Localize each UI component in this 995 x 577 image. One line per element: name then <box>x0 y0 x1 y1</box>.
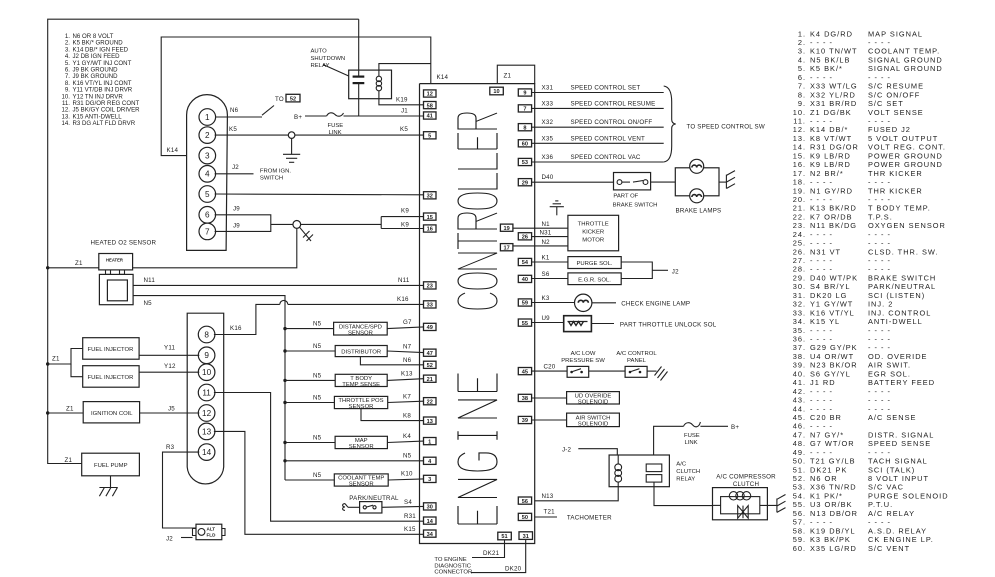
svg-text:CK ENGINE LP.: CK ENGINE LP. <box>868 535 934 544</box>
svg-text:- - - -: - - - - <box>810 239 833 248</box>
wire J2 solenoid common <box>621 262 652 279</box>
wire lamps to ground <box>719 181 726 183</box>
svg-text:1: 1 <box>428 439 431 445</box>
svg-text:13: 13 <box>427 419 433 425</box>
component distributor <box>335 346 387 357</box>
svg-text:K16: K16 <box>230 325 242 332</box>
svg-text:SPEED SENSE: SPEED SENSE <box>868 439 931 448</box>
svg-text:U3 OR/BK: U3 OR/BK <box>810 500 853 509</box>
svg-text:R31 DG/OR: R31 DG/OR <box>810 143 859 152</box>
svg-text:SHUTDOWN: SHUTDOWN <box>311 56 346 62</box>
svg-text:PRESSURE SW: PRESSURE SW <box>561 358 605 364</box>
pin 58 <box>424 102 437 109</box>
svg-text:K9 LB/RD: K9 LB/RD <box>810 160 851 169</box>
relay ac coil <box>615 455 622 487</box>
wire Z1 to heater <box>48 267 99 269</box>
component ud overide solenoid <box>567 392 620 404</box>
pin 52b <box>424 361 437 368</box>
svg-text:SWITCH: SWITCH <box>260 176 283 182</box>
svg-text:31: 31 <box>523 534 529 540</box>
wire ASD coil feed to K14 line <box>379 64 431 71</box>
svg-text:31.: 31. <box>793 291 806 300</box>
svg-text:THROTTLE: THROTTLE <box>578 222 609 228</box>
svg-text:1.: 1. <box>798 29 806 38</box>
junction N5 tap 3 <box>283 379 286 382</box>
svg-text:FROM IGN.: FROM IGN. <box>260 169 291 175</box>
svg-text:5: 5 <box>428 134 431 140</box>
wire brake switch to lamps <box>651 181 676 183</box>
svg-text:16.: 16. <box>793 160 806 169</box>
wire U9 pin55 to ptu sol <box>532 322 564 324</box>
svg-text:K1 PK/*: K1 PK/* <box>810 492 843 501</box>
svg-text:K1: K1 <box>542 255 550 262</box>
wire lamp to label <box>592 302 616 304</box>
component purge solenoid <box>568 257 621 269</box>
svg-text:K13 BK/RD: K13 BK/RD <box>810 204 857 213</box>
svg-text:7: 7 <box>523 107 526 113</box>
svg-text:T.P.S.: T.P.S. <box>868 212 893 221</box>
svg-text:E.G.R. SOL.: E.G.R. SOL. <box>578 277 611 283</box>
svg-text:38.: 38. <box>793 352 806 361</box>
svg-text:K8 VT/WT: K8 VT/WT <box>810 134 852 143</box>
wire J9 common to K9 split <box>271 223 381 225</box>
svg-text:G7: G7 <box>403 319 412 326</box>
ground fuel pump <box>99 476 117 496</box>
connector C2 body pins 8-14 <box>187 313 224 484</box>
svg-text:K13: K13 <box>401 371 413 378</box>
component ac compressor clutch <box>713 488 768 520</box>
svg-text:SPEED CONTROL ON/OFF: SPEED CONTROL ON/OFF <box>571 119 653 126</box>
pin 2 <box>199 127 216 144</box>
svg-text:10: 10 <box>202 368 212 377</box>
svg-text:40.: 40. <box>793 369 806 378</box>
svg-text:SOLENOID: SOLENOID <box>578 422 608 428</box>
svg-text:N5: N5 <box>403 453 412 460</box>
svg-text:12: 12 <box>202 409 212 418</box>
junction N5 tap 1 <box>283 327 286 330</box>
svg-text:56.: 56. <box>793 509 806 518</box>
wire K15 pin13 to pin 34 <box>214 431 424 534</box>
svg-text:J1 RD: J1 RD <box>810 378 836 387</box>
svg-text:N5: N5 <box>144 300 153 307</box>
wire N31 pin26 to kicker <box>532 236 568 238</box>
svg-text:N5: N5 <box>313 343 322 350</box>
pin 8 <box>198 326 215 343</box>
svg-text:12.: 12. <box>793 125 806 134</box>
wire K8 to pin 13 <box>361 409 424 421</box>
wire K5 pin2 to controller pin 5 <box>215 134 424 136</box>
svg-text:- - - -: - - - - <box>868 518 891 527</box>
svg-text:- - - -: - - - - <box>868 195 891 204</box>
svg-text:59.: 59. <box>793 535 806 544</box>
wire Y11 injector1 to pin 9 <box>139 354 199 356</box>
svg-text:J5: J5 <box>168 405 175 412</box>
svg-text:- - - -: - - - - <box>868 335 891 344</box>
svg-text:FUEL INJECTOR: FUEL INJECTOR <box>88 347 134 353</box>
svg-text:K14: K14 <box>437 74 449 81</box>
svg-text:N5: N5 <box>313 472 322 479</box>
svg-text:52: 52 <box>427 363 433 369</box>
component ignition coil <box>83 402 139 423</box>
component o2 sensor element <box>107 280 127 301</box>
wire K3 pin59 to lamp <box>532 302 575 304</box>
svg-text:A/C RELAY: A/C RELAY <box>868 509 915 518</box>
svg-text:18.: 18. <box>793 178 806 187</box>
wire relay contact to clutch <box>654 482 713 506</box>
svg-text:RELAY: RELAY <box>676 477 695 483</box>
relay contact bars <box>353 77 365 84</box>
wire N5 to distributor <box>285 350 335 352</box>
wire R3 pin14 to alt fld <box>163 452 200 528</box>
svg-text:BRAKE LAMPS: BRAKE LAMPS <box>676 208 722 215</box>
svg-text:PARK/NEUTRAL: PARK/NEUTRAL <box>868 282 936 291</box>
pin 12c <box>198 405 215 422</box>
svg-text:THR KICKER: THR KICKER <box>868 169 923 178</box>
svg-text:35.: 35. <box>793 326 806 335</box>
svg-text:- - - -: - - - - <box>810 518 833 527</box>
pin 51 bottom <box>498 532 512 540</box>
svg-text:HEATER: HEATER <box>106 258 123 263</box>
pin 29 right <box>518 179 531 186</box>
svg-text:N5: N5 <box>313 373 322 380</box>
pin 10c <box>198 364 215 381</box>
svg-text:S/C VAC: S/C VAC <box>868 483 904 492</box>
wire J2 to alt fld <box>181 537 193 539</box>
svg-text:N5: N5 <box>313 321 322 328</box>
svg-text:46.: 46. <box>793 422 806 431</box>
pin 11c <box>198 384 215 401</box>
svg-text:K16 VT/YL: K16 VT/YL <box>810 308 855 317</box>
fuse link symbol ac <box>684 422 701 427</box>
svg-text:N2 BR/*: N2 BR/* <box>810 169 844 178</box>
svg-text:K7 OR/DB: K7 OR/DB <box>810 212 853 221</box>
svg-text:- - - -: - - - - <box>810 265 833 274</box>
svg-text:PANEL: PANEL <box>627 358 647 364</box>
wire Z1 battery bus top border <box>48 19 359 463</box>
svg-text:SENSOR: SENSOR <box>348 330 373 336</box>
wire K13 to pin 21 <box>387 379 423 381</box>
svg-text:DIAGNOSTIC: DIAGNOSTIC <box>434 563 471 569</box>
pin 13 <box>424 417 437 424</box>
wire N5 to distance sensor <box>285 328 334 330</box>
svg-text:42.: 42. <box>793 387 806 396</box>
pin 40 right <box>518 275 531 282</box>
svg-text:60: 60 <box>522 142 528 148</box>
svg-text:U4 OR/WT: U4 OR/WT <box>810 352 854 361</box>
svg-text:32: 32 <box>427 194 433 200</box>
svg-text:PURGE SOL.: PURGE SOL. <box>576 261 612 267</box>
svg-text:K15: K15 <box>404 526 416 533</box>
svg-text:- - - -: - - - - <box>868 256 891 265</box>
svg-text:Y1 GY/WT: Y1 GY/WT <box>810 300 853 309</box>
svg-text:LINK: LINK <box>685 440 698 446</box>
svg-text:S4: S4 <box>404 499 412 506</box>
svg-text:26.: 26. <box>793 247 806 256</box>
svg-text:9.: 9. <box>798 99 806 108</box>
svg-text:PURGE SOLENOID: PURGE SOLENOID <box>868 492 949 501</box>
svg-text:A.S.D. RELAY: A.S.D. RELAY <box>868 526 927 535</box>
svg-text:- - - -: - - - - <box>868 387 891 396</box>
junction Z1 o2 tap <box>46 266 49 269</box>
svg-text:29: 29 <box>522 180 528 186</box>
pin 30 <box>424 503 437 510</box>
wire N1 pin19 to kicker <box>513 227 568 229</box>
svg-text:INJ. CONTROL: INJ. CONTROL <box>868 308 931 317</box>
switch ac control panel <box>625 366 647 377</box>
svg-text:T21: T21 <box>544 509 556 516</box>
svg-text:60.: 60. <box>793 544 806 553</box>
wire ptu sol to label <box>591 323 614 325</box>
svg-text:DK21 PK: DK21 PK <box>810 465 847 474</box>
svg-text:5.: 5. <box>798 64 806 73</box>
svg-text:- - - -: - - - - <box>868 178 891 187</box>
pin 14 <box>424 517 437 524</box>
svg-text:- - - -: - - - - <box>810 73 833 82</box>
wire pin39 to air switch <box>532 419 567 421</box>
svg-text:K16: K16 <box>397 296 409 303</box>
svg-text:17.: 17. <box>793 169 806 178</box>
pin 49 <box>424 323 437 330</box>
wire K9 to pins 15 16 <box>380 217 382 229</box>
svg-text:21: 21 <box>427 377 433 383</box>
svg-text:- - - -: - - - - <box>810 117 833 126</box>
svg-text:ANTI-DWELL: ANTI-DWELL <box>868 317 923 326</box>
svg-text:TO SPEED CONTROL SW: TO SPEED CONTROL SW <box>687 124 765 131</box>
svg-text:40: 40 <box>522 277 528 283</box>
brace to speed control sw <box>664 86 676 162</box>
pin 3 <box>199 147 216 164</box>
svg-text:N6 OR: N6 OR <box>810 474 838 483</box>
wire panel to ground <box>647 370 656 372</box>
svg-text:27.: 27. <box>793 256 806 265</box>
svg-text:3: 3 <box>205 152 210 161</box>
svg-text:K7: K7 <box>403 393 411 400</box>
pin 53 right <box>518 158 531 165</box>
svg-text:X33: X33 <box>542 100 554 107</box>
svg-text:33: 33 <box>427 303 433 309</box>
svg-text:Z1: Z1 <box>75 260 83 267</box>
pin 5 <box>424 132 437 139</box>
svg-text:4.: 4. <box>798 56 806 65</box>
svg-text:P.T.U.: P.T.U. <box>868 500 893 509</box>
svg-text:- - - -: - - - - <box>868 265 891 274</box>
wire K1 pin54 to purge sol <box>532 261 568 263</box>
wire pin5 to controller pin 32 <box>215 193 424 196</box>
wire S6 pin40 to egr sol <box>532 278 568 280</box>
svg-text:K5: K5 <box>400 126 408 133</box>
pin 34 <box>424 530 437 537</box>
ground below K5 junction <box>283 139 300 163</box>
svg-text:N13: N13 <box>542 493 554 500</box>
pin 14c <box>198 444 215 461</box>
svg-text:OD. OVERIDE: OD. OVERIDE <box>868 352 927 361</box>
svg-text:30: 30 <box>427 505 433 511</box>
svg-text:- - - -: - - - - <box>810 422 833 431</box>
wire N6 to pin 52 <box>360 357 423 365</box>
svg-text:DISTR. SIGNAL: DISTR. SIGNAL <box>868 430 934 439</box>
pin 32 <box>424 192 437 199</box>
svg-text:SIGNAL GROUND: SIGNAL GROUND <box>868 64 943 73</box>
svg-text:FUSE: FUSE <box>684 433 700 439</box>
svg-text:N11: N11 <box>398 277 410 284</box>
svg-text:FUEL PUMP: FUEL PUMP <box>94 463 128 469</box>
svg-text:R31: R31 <box>404 513 416 520</box>
svg-text:MAP SIGNAL: MAP SIGNAL <box>868 29 923 38</box>
svg-text:BATTERY FEED: BATTERY FEED <box>868 378 935 387</box>
wire N5 to coolant <box>285 479 334 481</box>
wire G7 to pin 49 <box>387 327 423 329</box>
ground ac panel <box>655 367 668 381</box>
svg-text:54: 54 <box>522 260 529 266</box>
svg-text:56: 56 <box>522 499 528 505</box>
pin 1 <box>424 438 437 445</box>
svg-text:R3: R3 <box>166 444 175 451</box>
svg-text:47: 47 <box>427 351 433 357</box>
svg-text:17: 17 <box>503 245 509 251</box>
wire N7 to pin 47 <box>387 351 423 353</box>
svg-text:6: 6 <box>205 211 210 220</box>
svg-text:49: 49 <box>427 325 433 331</box>
wire X32 speed control on off <box>532 126 664 128</box>
pin 19 right <box>500 224 513 231</box>
svg-text:53: 53 <box>522 160 528 166</box>
wire S4 to pin 30 <box>382 505 424 508</box>
relay ASD box <box>349 70 392 99</box>
svg-text:N6: N6 <box>230 107 239 114</box>
svg-text:DK20: DK20 <box>505 566 522 573</box>
wire DK21 pin51 to diagnostic <box>472 540 505 558</box>
wire N5 to map <box>285 442 335 444</box>
svg-text:A/C SENSE: A/C SENSE <box>868 413 916 422</box>
component fuel injector 1 <box>83 338 139 360</box>
svg-text:TO ENGINE: TO ENGINE <box>434 557 466 563</box>
svg-text:X35 LG/RD: X35 LG/RD <box>810 544 857 553</box>
svg-text:28.: 28. <box>793 265 806 274</box>
wire Z1 to coil <box>48 412 83 414</box>
svg-text:A/C CONTROL: A/C CONTROL <box>616 351 657 357</box>
svg-text:- - - -: - - - - <box>810 195 833 204</box>
svg-text:COOLANT TEMP.: COOLANT TEMP. <box>868 47 940 56</box>
svg-text:57.: 57. <box>793 518 806 527</box>
svg-text:A/C LOW: A/C LOW <box>571 351 596 357</box>
svg-text:Z1: Z1 <box>66 405 74 412</box>
svg-text:BRAKE SWITCH: BRAKE SWITCH <box>868 274 936 283</box>
pin 23 <box>424 282 437 289</box>
wire T21 pin50 tachometer <box>535 516 557 518</box>
svg-text:J9: J9 <box>233 206 240 213</box>
ground ac clutch <box>777 495 786 513</box>
pin 50 right <box>518 513 531 520</box>
pin 1 <box>199 109 216 126</box>
svg-text:24.: 24. <box>793 230 806 239</box>
svg-text:N11 BK/DG: N11 BK/DG <box>810 221 857 230</box>
svg-text:K9: K9 <box>401 222 409 229</box>
svg-text:J2: J2 <box>166 536 173 543</box>
svg-text:15: 15 <box>427 215 433 221</box>
svg-text:X32 YL/RD: X32 YL/RD <box>810 90 856 99</box>
svg-text:8: 8 <box>204 330 209 339</box>
wire N5 to t body <box>285 379 335 381</box>
svg-text:N6: N6 <box>403 357 412 364</box>
svg-text:- - - -: - - - - <box>810 38 833 47</box>
svg-text:CHECK ENGINE LAMP: CHECK ENGINE LAMP <box>621 301 690 308</box>
svg-text:- - - -: - - - - <box>868 239 891 248</box>
svg-text:45.: 45. <box>793 413 806 422</box>
svg-text:- - - -: - - - - <box>810 396 833 405</box>
svg-text:37.: 37. <box>793 343 806 352</box>
svg-text:A/C COMPRESSOR: A/C COMPRESSOR <box>716 474 776 481</box>
svg-text:S/C VENT: S/C VENT <box>868 544 910 553</box>
svg-text:K14 DB/*: K14 DB/* <box>810 125 848 134</box>
svg-text:THR KICKER: THR KICKER <box>868 186 923 195</box>
svg-text:SPEED CONTROL RESUME: SPEED CONTROL RESUME <box>571 100 656 107</box>
svg-text:N7: N7 <box>403 344 412 351</box>
ground brake lamps <box>726 171 735 189</box>
svg-text:PART THROTTLE UNLOCK SOL: PART THROTTLE UNLOCK SOL <box>620 321 717 328</box>
svg-text:- - - -: - - - - <box>810 387 833 396</box>
svg-text:U9: U9 <box>542 315 551 322</box>
component distance spd sensor <box>334 322 388 335</box>
svg-text:19.: 19. <box>793 186 806 195</box>
svg-text:B+: B+ <box>294 114 302 121</box>
svg-text:X33 WT/LG: X33 WT/LG <box>810 82 858 91</box>
svg-text:53.: 53. <box>793 483 806 492</box>
svg-text:51: 51 <box>501 534 507 540</box>
svg-text:2: 2 <box>205 131 210 140</box>
component ac clutch relay <box>609 455 669 487</box>
svg-text:26: 26 <box>522 235 528 241</box>
svg-text:K5: K5 <box>229 126 237 133</box>
svg-text:FUEL INJECTOR: FUEL INJECTOR <box>88 375 134 381</box>
switch brake <box>614 173 651 190</box>
component alternator field <box>196 524 222 540</box>
component throttle pos sensor <box>334 396 387 408</box>
svg-text:36.: 36. <box>793 335 806 344</box>
svg-text:20.: 20. <box>793 195 806 204</box>
svg-text:23: 23 <box>427 284 433 290</box>
switch to 52 <box>262 106 274 116</box>
component brake lamps box <box>675 168 719 196</box>
svg-text:- - - -: - - - - <box>810 326 833 335</box>
pin 16 <box>424 225 437 232</box>
pin 55 right <box>518 319 531 326</box>
wire J-2 to relay coil <box>578 449 617 457</box>
ground park neutral <box>343 504 360 511</box>
svg-text:10: 10 <box>493 89 499 95</box>
svg-text:K15 YL: K15 YL <box>810 317 840 326</box>
component fuel pump <box>82 453 140 476</box>
wire N13 relay to pin 56 <box>535 487 619 501</box>
svg-text:N7 GY/*: N7 GY/* <box>810 430 844 439</box>
svg-text:K19: K19 <box>396 97 408 104</box>
switch S4 park neutral <box>360 502 382 513</box>
wire C20 pin45 to ac low sw <box>532 370 568 372</box>
svg-text:J9: J9 <box>233 223 240 230</box>
svg-text:Z1: Z1 <box>65 457 73 464</box>
svg-text:4: 4 <box>205 170 210 179</box>
pin 41 <box>424 112 437 119</box>
svg-text:N31: N31 <box>540 230 552 237</box>
svg-text:G7 WT/OR: G7 WT/OR <box>810 439 855 448</box>
svg-text:Z1: Z1 <box>504 73 512 80</box>
svg-text:6.: 6. <box>798 73 806 82</box>
svg-text:14: 14 <box>427 519 434 525</box>
svg-text:T BODY TEMP.: T BODY TEMP. <box>868 204 931 213</box>
svg-text:10.: 10. <box>793 108 806 117</box>
svg-text:FLD: FLD <box>207 533 217 538</box>
svg-text:J2: J2 <box>672 268 679 275</box>
pin 45 right <box>518 368 531 375</box>
